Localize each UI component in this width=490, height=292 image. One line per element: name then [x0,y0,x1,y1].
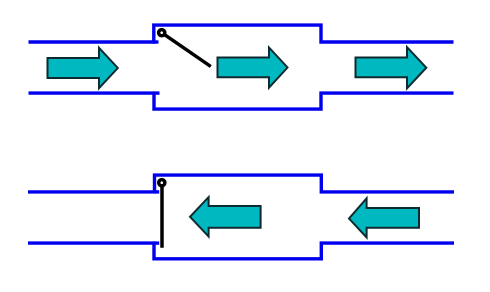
top valve flap (open, tilted) [162,33,211,67]
flow arrow right pipe (leftward) [349,198,419,237]
top valve upper pipe/chamber wall [29,25,454,42]
flow arrow right pipe (rightward) [356,47,427,88]
top valve upper pipe wall stub under hinge [153,40,159,43]
bottom valve upper pipe wall stub under hinge [154,190,159,193]
bottom valve lower pipe/chamber wall [28,243,454,259]
flow arrow chamber (rightward) [218,48,288,88]
top valve lower pipe/chamber wall [29,93,454,109]
top valve lower pipe wall stub [153,91,160,94]
top valve hinge pin [159,30,165,36]
flow arrow chamber (leftward, blocked) [190,197,261,236]
flow arrow left pipe (rightward) [48,48,118,88]
bottom valve upper pipe/chamber wall [28,175,454,192]
bottom valve lower pipe wall stub [153,241,159,244]
bottom valve hinge pin [159,180,165,186]
bottom valve flap (closed, vertical) [160,183,164,248]
